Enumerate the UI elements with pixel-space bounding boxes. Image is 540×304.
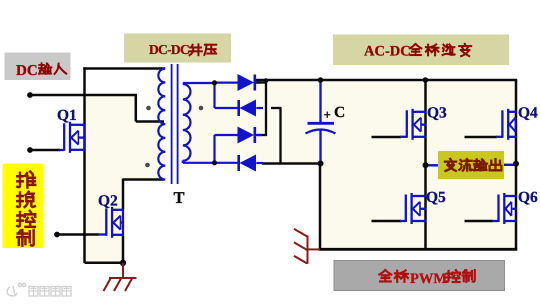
svg-text:T: T	[174, 188, 185, 207]
svg-text:Q3: Q3	[427, 105, 447, 122]
svg-text:Q1: Q1	[57, 107, 77, 124]
svg-text:DC-DC: DC-DC	[149, 42, 189, 57]
svg-text:PWM: PWM	[410, 271, 447, 287]
svg-text:Q5: Q5	[426, 189, 446, 206]
svg-text:+: +	[324, 107, 331, 122]
svg-text:AC-DC: AC-DC	[364, 44, 411, 60]
svg-text:Q2: Q2	[98, 193, 118, 210]
svg-text:DC: DC	[16, 63, 38, 79]
svg-text:Q4: Q4	[518, 105, 538, 122]
svg-text:C: C	[334, 104, 345, 121]
svg-text:Q6: Q6	[518, 189, 538, 206]
